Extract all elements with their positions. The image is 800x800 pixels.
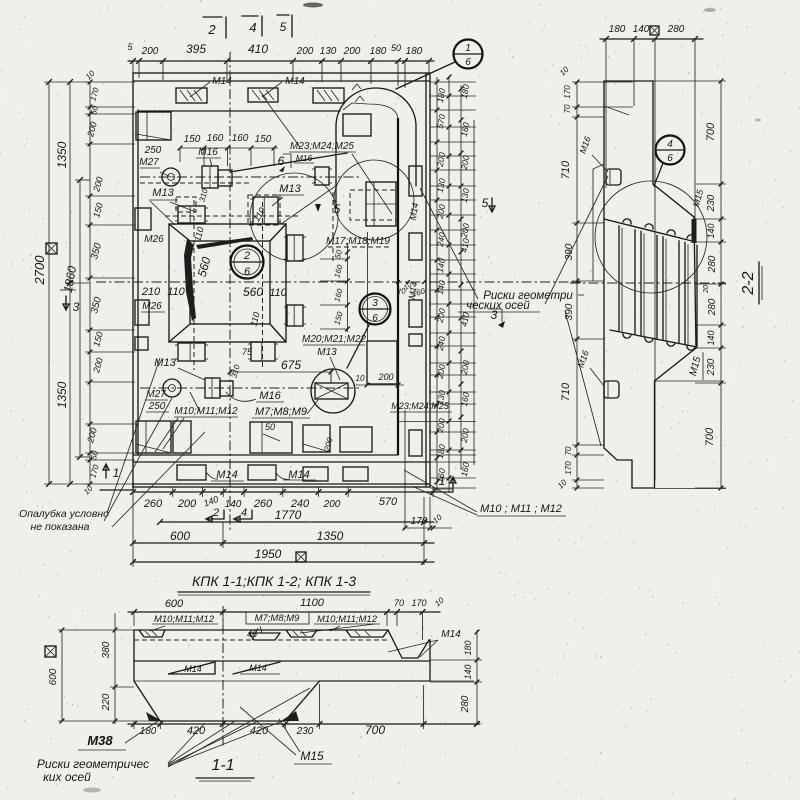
bottom band block 2a xyxy=(173,421,191,453)
section 1-1 profile xyxy=(134,630,430,721)
pyramid smudge top edge xyxy=(196,237,253,249)
svg-text:6: 6 xyxy=(244,266,251,278)
callout circle 4/6 xyxy=(656,136,685,165)
svg-text:160: 160 xyxy=(232,133,249,144)
top slot 2 xyxy=(248,88,278,102)
svg-text:ческих осей: ческих осей xyxy=(466,300,530,312)
plan cavity corner arch outer xyxy=(336,88,416,208)
svg-text:180: 180 xyxy=(463,640,473,655)
left extension lines xyxy=(85,81,135,83)
section 2-2 rib strips xyxy=(618,226,620,331)
pyramid top bolt right xyxy=(253,197,278,224)
plan outer wall rectangle xyxy=(133,73,430,487)
pyramid bolt axis dashed right xyxy=(262,202,264,368)
detail circle top bolts left xyxy=(250,173,338,261)
section 1-1 top dim line xyxy=(128,611,440,613)
pyramid bottom bolt right xyxy=(251,342,275,361)
svg-text:М13: М13 xyxy=(154,357,176,369)
top slot 3 xyxy=(313,88,344,103)
left wall block bottom xyxy=(136,421,171,453)
svg-text:675: 675 xyxy=(281,358,301,372)
section 2-2 profile left xyxy=(604,81,696,488)
svg-text:1: 1 xyxy=(465,43,471,54)
svg-text:3: 3 xyxy=(372,298,378,309)
left dim column 1350 1860 1350 xyxy=(69,82,71,484)
svg-text:1-1: 1-1 xyxy=(211,757,234,774)
svg-text:110: 110 xyxy=(269,287,287,299)
svg-text:2: 2 xyxy=(207,22,216,37)
right extension lines xyxy=(430,81,476,83)
tall rect extension line xyxy=(367,232,369,341)
svg-text:110: 110 xyxy=(167,286,185,298)
svg-text:220: 220 xyxy=(101,693,112,711)
section 1-1 label leaders xyxy=(150,626,165,631)
svg-text:М10;М11;М12: М10;М11;М12 xyxy=(154,614,215,625)
callout circle 3/6 xyxy=(360,294,391,325)
svg-text:230: 230 xyxy=(706,358,717,376)
dim 675 line xyxy=(230,371,331,373)
bolt M16 right xyxy=(315,167,329,185)
datum box on section 2-2 dim xyxy=(650,26,659,35)
svg-text:570: 570 xyxy=(379,496,398,508)
svg-text:М7;М8;М9: М7;М8;М9 xyxy=(255,406,307,418)
right ladder ticks xyxy=(435,80,439,484)
bottom slot 4 xyxy=(343,467,368,481)
svg-text:2700: 2700 xyxy=(32,255,47,286)
datum box on 1950 xyxy=(296,552,306,562)
svg-text:170: 170 xyxy=(563,85,572,99)
svg-text:280: 280 xyxy=(667,24,685,35)
plan horizontal axis upper xyxy=(140,176,362,178)
section 2-2 bolt pocket upper xyxy=(606,169,621,185)
svg-text:20: 20 xyxy=(703,285,710,294)
svg-text:600: 600 xyxy=(170,529,190,543)
section 1-1 inner lines xyxy=(134,660,430,662)
svg-text:1: 1 xyxy=(439,474,446,488)
section 1-1 M14 wedge 2 xyxy=(233,662,280,674)
svg-text:130: 130 xyxy=(320,46,337,57)
svg-text:230: 230 xyxy=(706,194,717,212)
section 1-1 centerline xyxy=(222,606,224,748)
svg-text:М14: М14 xyxy=(216,469,237,481)
svg-text:700: 700 xyxy=(705,122,717,141)
bolt dashed box right xyxy=(248,195,280,225)
left dim column outer 2700 xyxy=(48,82,50,484)
svg-text:70: 70 xyxy=(563,104,572,113)
block bottom row 3 xyxy=(303,425,330,452)
svg-text:170: 170 xyxy=(564,461,573,475)
plan cavity left edge xyxy=(137,110,139,455)
svg-text:1350: 1350 xyxy=(317,529,344,543)
section 1-1 left dim cols xyxy=(114,613,116,724)
section 1-1 bottom dim xyxy=(128,723,480,725)
svg-text:380: 380 xyxy=(101,641,112,658)
section 2-2 top dim line xyxy=(600,38,703,40)
section 2-2 outer face step xyxy=(593,164,604,281)
svg-text:170: 170 xyxy=(411,598,426,608)
svg-text:5: 5 xyxy=(280,20,287,34)
svg-text:2: 2 xyxy=(243,250,250,262)
left wall block top xyxy=(136,112,171,140)
plan dim 1770 xyxy=(160,521,434,523)
plan outer wall inner edge right xyxy=(425,73,427,487)
section 1-1 right dim col xyxy=(476,630,478,724)
leader bolt to pyramid bolt xyxy=(281,185,337,224)
plan dim 600 1350 xyxy=(133,542,434,544)
svg-text:М14: М14 xyxy=(285,76,305,87)
right strip slots xyxy=(409,166,422,196)
section 2-2 bolt pocket lower xyxy=(604,381,619,398)
svg-text:4: 4 xyxy=(241,507,247,519)
svg-text:150: 150 xyxy=(184,134,201,145)
svg-text:75: 75 xyxy=(242,347,253,357)
svg-text:М10;М11;М12: М10;М11;М12 xyxy=(317,614,378,625)
svg-text:200: 200 xyxy=(296,46,314,57)
section 1-1 slot 3 xyxy=(286,630,317,637)
svg-text:150: 150 xyxy=(255,134,272,145)
left wall block 3 xyxy=(135,300,149,325)
axis dashed upper bolts xyxy=(165,215,300,217)
plan cavity top edge xyxy=(138,110,340,112)
datum box symbol 1-1 xyxy=(45,646,56,657)
svg-text:М14: М14 xyxy=(184,664,202,674)
pyramid inner square xyxy=(190,241,270,324)
leader 3/6 to bolt detail xyxy=(347,323,370,368)
svg-text:410: 410 xyxy=(248,42,268,56)
svg-text:260: 260 xyxy=(253,498,273,510)
section 2-2 ribs top line xyxy=(604,219,696,242)
riski bottom leader fan xyxy=(168,723,205,763)
svg-text:10: 10 xyxy=(356,374,365,383)
section 2-2 extension verticals xyxy=(606,39,695,480)
plan top wall inner line xyxy=(133,80,430,82)
bolt M23 dashed box xyxy=(350,190,396,220)
dim chain 50 160 160 150 vertical xyxy=(347,243,349,332)
plan dim 1950 xyxy=(133,561,434,563)
svg-text:140: 140 xyxy=(225,499,242,510)
svg-text:4: 4 xyxy=(667,139,673,150)
svg-text:180: 180 xyxy=(609,24,626,35)
callout 4/6 leader xyxy=(654,163,663,186)
svg-text:3: 3 xyxy=(73,300,80,314)
svg-text:420: 420 xyxy=(250,725,269,737)
pyramid outer square xyxy=(169,224,286,342)
svg-text:6: 6 xyxy=(278,154,285,168)
svg-text:50: 50 xyxy=(391,43,401,53)
svg-text:160: 160 xyxy=(207,133,224,144)
svg-text:50: 50 xyxy=(265,422,275,432)
svg-text:5: 5 xyxy=(334,202,341,216)
dark weld bar right xyxy=(692,219,697,243)
callout 1/6 leader xyxy=(396,62,455,89)
svg-text:280: 280 xyxy=(707,255,718,273)
section 2-2 inner wall slope xyxy=(604,106,629,115)
svg-text:70: 70 xyxy=(564,446,573,455)
svg-text:6: 6 xyxy=(667,153,673,164)
section 1-1 slot 2 xyxy=(249,633,280,640)
section mark 4 top xyxy=(242,16,262,36)
svg-text:3: 3 xyxy=(491,308,498,322)
svg-text:230: 230 xyxy=(296,726,314,737)
svg-text:200: 200 xyxy=(343,46,361,57)
svg-text:395: 395 xyxy=(186,42,206,56)
svg-text:М14: М14 xyxy=(288,469,309,481)
bolt dashed box left xyxy=(176,197,196,212)
svg-text:М15: М15 xyxy=(300,749,324,763)
svg-text:1950: 1950 xyxy=(255,547,282,561)
plan vertical centerline xyxy=(229,52,231,530)
dim row 150 160 160 150 xyxy=(180,147,278,149)
section 2-2 ribs bottom line xyxy=(610,330,697,347)
svg-text:1770: 1770 xyxy=(275,508,302,522)
pyramid bottom bolt left xyxy=(178,343,205,361)
leader M23 to bolt xyxy=(230,153,347,172)
svg-text:М14: М14 xyxy=(212,76,232,87)
washer circle M27 lower xyxy=(163,379,181,397)
svg-text:710: 710 xyxy=(560,382,572,401)
svg-text:М38: М38 xyxy=(87,733,113,748)
bolt M16 upper xyxy=(202,166,218,188)
svg-text:260: 260 xyxy=(143,498,163,510)
bolt M23 group xyxy=(366,182,396,226)
svg-text:6: 6 xyxy=(465,57,471,68)
svg-text:390: 390 xyxy=(564,243,575,260)
section 1-1 foot wedge left xyxy=(146,712,162,721)
washer circle M27 upper xyxy=(162,168,180,186)
dim 170 10 bottom right xyxy=(403,527,452,529)
svg-text:М26: М26 xyxy=(142,301,162,312)
section 2-2 right dim column xyxy=(720,81,722,488)
svg-text:600: 600 xyxy=(165,598,184,610)
svg-text:250: 250 xyxy=(144,145,162,156)
svg-text:70: 70 xyxy=(394,598,404,608)
left wall block 4 xyxy=(135,337,148,350)
svg-text:250: 250 xyxy=(148,401,166,412)
svg-text:210: 210 xyxy=(141,286,161,298)
section 1-1 slot 4 xyxy=(346,630,388,637)
dashed line upper secondary xyxy=(140,182,250,184)
svg-text:560: 560 xyxy=(243,285,263,299)
svg-text:710: 710 xyxy=(560,160,572,179)
svg-text:1350: 1350 xyxy=(55,141,69,168)
plan top extension lines xyxy=(133,61,429,88)
svg-text:М10 ; М11 ; М12: М10 ; М11 ; М12 xyxy=(480,503,562,515)
plan bottom wall lines xyxy=(133,454,398,456)
pyramid corner diagonals xyxy=(169,224,286,342)
plan cavity right edge xyxy=(397,118,399,455)
section 5 cut line xyxy=(332,192,334,262)
left wall block 2 xyxy=(135,208,151,230)
svg-text:200: 200 xyxy=(377,372,393,382)
riski leader to section xyxy=(565,311,601,446)
pyramid dark smudge left edge xyxy=(184,239,196,321)
bottom slot 2 xyxy=(248,465,276,480)
svg-text:М16: М16 xyxy=(198,147,218,158)
svg-text:280: 280 xyxy=(460,695,471,713)
tall rect right lower xyxy=(367,341,397,384)
svg-text:1100: 1100 xyxy=(300,597,325,609)
svg-text:1: 1 xyxy=(113,466,120,480)
arch check marks xyxy=(352,84,364,102)
svg-text:180: 180 xyxy=(406,46,423,57)
dim 10 200 lower xyxy=(356,384,404,386)
section 1-1 top edge with notch xyxy=(134,630,430,658)
block bottom row 4 xyxy=(340,427,372,452)
svg-text:2-2: 2-2 xyxy=(740,271,757,295)
top slot 1 xyxy=(176,88,207,103)
plan top dimension line xyxy=(128,60,434,62)
bottom slot 3 xyxy=(303,467,328,481)
section mark 2 top xyxy=(203,17,226,38)
scan smudges xyxy=(303,3,323,8)
arch interior rect xyxy=(343,114,371,136)
svg-text:не показана: не показана xyxy=(31,521,90,533)
svg-text:140: 140 xyxy=(463,664,473,679)
svg-text:140: 140 xyxy=(633,24,650,35)
plan horizontal axis lower xyxy=(140,387,362,389)
section 1-1 foot wedge right xyxy=(281,711,299,721)
svg-text:М10;М11;М12: М10;М11;М12 xyxy=(174,406,238,417)
svg-text:М14: М14 xyxy=(441,629,461,640)
left dim column fine chain xyxy=(89,82,91,484)
svg-text:2: 2 xyxy=(212,507,219,519)
plan bottom dim chain 1 xyxy=(133,491,434,493)
svg-text:700: 700 xyxy=(365,723,385,737)
svg-text:700: 700 xyxy=(704,427,716,446)
section mark 5 top xyxy=(277,15,292,37)
section 2-2 left dim column xyxy=(576,82,578,488)
svg-text:200: 200 xyxy=(177,498,197,510)
svg-text:М27: М27 xyxy=(139,157,159,168)
pyramid bolt axis dashed left xyxy=(193,200,195,370)
section 2-2 small ext lines xyxy=(655,380,721,382)
right ladder verticals xyxy=(436,77,438,492)
svg-text:600: 600 xyxy=(48,668,59,685)
svg-text:420: 420 xyxy=(187,725,206,737)
plan cavity corner inner line xyxy=(343,103,398,120)
bottom slot 1 xyxy=(177,465,206,480)
pyramid top bolt left xyxy=(178,206,205,223)
bolt detail circle lower xyxy=(311,369,355,413)
pyramid right bolt lower xyxy=(287,305,303,326)
callout circle 1/6 xyxy=(454,40,483,69)
svg-text:М14: М14 xyxy=(249,663,267,673)
svg-text:180: 180 xyxy=(370,46,387,57)
svg-text:М17;М18;М19: М17;М18;М19 xyxy=(326,236,390,247)
section 2-2 top edge extension right xyxy=(653,80,726,82)
plan horizontal centerline main xyxy=(96,281,581,283)
svg-text:140: 140 xyxy=(706,223,716,238)
svg-text:М13: М13 xyxy=(152,187,174,199)
svg-text:Риски геометричес: Риски геометричес xyxy=(37,757,149,771)
bolt M16 lower xyxy=(205,378,220,398)
svg-text:М16: М16 xyxy=(259,390,281,402)
svg-text:М13: М13 xyxy=(279,183,301,195)
datum box symbol left xyxy=(46,243,57,254)
section 1-1 slot 1 xyxy=(139,630,165,637)
svg-text:Опалубка условно: Опалубка условно xyxy=(19,508,109,520)
svg-text:КПК 1-1;КПК 1-2; КПК 1-3: КПК 1-1;КПК 1-2; КПК 1-3 xyxy=(192,573,356,589)
callout circle 2/6 xyxy=(231,246,264,279)
svg-text:200: 200 xyxy=(323,499,341,510)
svg-text:6: 6 xyxy=(372,313,378,324)
detail circle on ribs xyxy=(595,181,707,293)
svg-text:М26: М26 xyxy=(144,234,164,245)
svg-text:1350: 1350 xyxy=(55,381,69,408)
block bottom row 2 xyxy=(250,422,292,453)
svg-text:ких осей: ких осей xyxy=(43,770,91,784)
svg-text:4: 4 xyxy=(249,20,256,35)
detail circle top right xyxy=(334,160,414,240)
pyramid right bolt upper xyxy=(287,235,303,261)
opalubka leaders xyxy=(107,358,160,513)
svg-text:М20;М21;М22: М20;М21;М22 xyxy=(302,334,366,345)
M10 leaders xyxy=(414,487,477,515)
svg-text:140: 140 xyxy=(706,330,716,345)
svg-text:5: 5 xyxy=(482,196,489,210)
section 2-2 centerline xyxy=(570,282,726,284)
section 2-2 profile top right xyxy=(604,81,696,348)
svg-text:280: 280 xyxy=(707,298,718,316)
svg-text:М13: М13 xyxy=(317,347,337,358)
svg-text:200: 200 xyxy=(141,46,159,57)
section 1-1 M14 wedge 1 xyxy=(168,662,215,674)
